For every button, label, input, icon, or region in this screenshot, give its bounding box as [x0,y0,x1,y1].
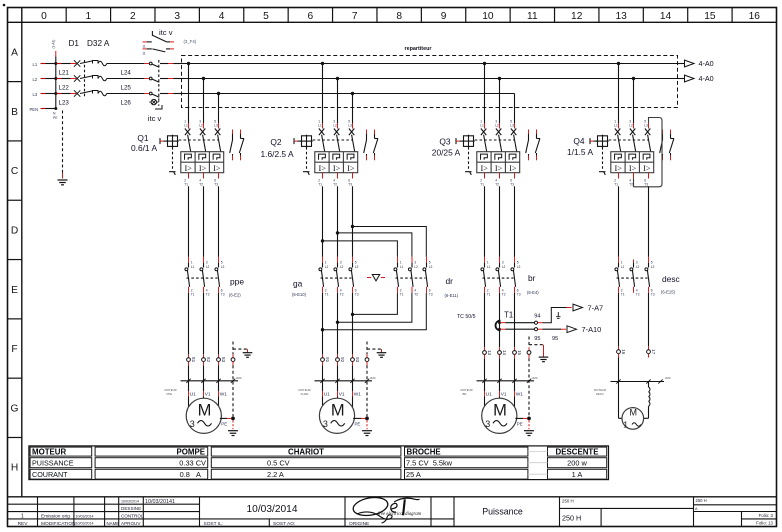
revision row REV / MODIFICATION [18,521,142,527]
row reference letters [8,48,22,474]
Q2 pole 3 lower pin [348,173,352,187]
svg-text:Folio: 13: Folio: 13 [756,521,773,526]
Q2 pole 1 contact [318,119,325,151]
svg-text:16: 16 [749,11,761,22]
svg-text:I>: I> [185,164,193,173]
svg-text:0.33 CV: 0.33 CV [179,459,206,468]
svg-text:T1: T1 [614,183,618,187]
wire contactor to terminal 15 [514,293,516,347]
contactor br label [527,273,539,295]
svg-text:T2: T2 [414,293,418,297]
svg-text:br: br [528,273,536,283]
terminal 81 [187,354,196,365]
svg-text:L1: L1 [184,124,188,128]
Q3 pole 2 contact [495,119,502,151]
Q4 pole 2 lower pin [629,173,633,187]
svg-text:L2: L2 [33,77,38,82]
contactor dr pole 2 [408,257,418,297]
svg-text:L1: L1 [480,124,484,128]
svg-text:MOTEUR: MOTEUR [32,447,66,456]
svg-text:PEN: PEN [30,107,39,112]
svg-text:L2: L2 [629,124,633,128]
wire starter to contactor x=322 [322,186,324,256]
svg-text:3: 3 [174,11,180,22]
svg-text:93: 93 [355,357,360,363]
svg-text:M: M [493,401,507,419]
svg-text:T1: T1 [184,183,188,187]
svg-text:T2: T2 [502,293,506,297]
motor protection breaker Q3 label [432,137,461,158]
wire contactor to terminal 14 [499,293,501,347]
wire desc left to terminal [618,293,620,347]
svg-text:free electrical diagram: free electrical diagram [378,512,422,517]
svg-text:C: C [11,166,18,177]
svg-text:81: 81 [191,357,196,363]
svg-text:TC 50/5: TC 50/5 [457,314,476,320]
contactor desc pole 2 [630,260,640,297]
svg-text:L3: L3 [429,265,433,269]
Q4 pole 2 contact [629,119,636,151]
svg-text:BR: BR [463,392,467,396]
svg-text:L2: L2 [502,265,506,269]
svg-text:2: 2 [184,178,186,182]
svg-text:5: 5 [355,261,357,265]
svg-text:I>: I> [213,164,221,173]
motor protection breaker Q4 label [567,136,593,157]
motor data table [29,446,609,480]
svg-text:(6-E4): (6-E4) [527,290,539,295]
svg-text:DESSINE: DESSINE [121,506,141,511]
svg-text:U1: U1 [324,391,330,397]
wire desc right to terminal [648,293,650,347]
svg-text:T2: T2 [206,293,210,297]
contactor desc linkage [617,277,648,279]
svg-text:T3: T3 [348,183,352,187]
svg-text:U1: U1 [190,391,196,397]
svg-text:H: H [11,463,18,474]
svg-text:T2: T2 [495,183,499,187]
svg-text:M: M [198,401,212,419]
motor protection breaker Q1 label [131,133,157,153]
contactor itc v coil/actuator [149,99,162,109]
svg-text:I>: I> [199,164,207,173]
svg-text:L3: L3 [221,265,225,269]
svg-text:itc v: itc v [159,28,173,37]
svg-text:I>: I> [495,164,503,173]
motor PE connection broche [515,417,534,436]
svg-text:1: 1 [86,11,92,22]
svg-text:PE: PE [355,421,361,426]
distribution block repartiteur [182,46,678,108]
svg-text:1: 1 [21,514,24,520]
Q1 pole 3 lower pin [214,173,218,187]
svg-text:17: 17 [651,349,656,355]
svg-text:6: 6 [644,178,646,182]
terminal 91 [321,354,330,365]
svg-text:L3: L3 [355,265,359,269]
wire starter to contactor x=484 [484,186,486,256]
PEN earth connection [53,111,68,185]
svg-text:L1: L1 [487,265,491,269]
wire strip to motor W1 [353,381,362,408]
wire jumper ga2 to dr2 (top) [336,231,412,257]
svg-text:(6-E11): (6-E11) [445,293,459,298]
svg-text:V1: V1 [205,391,211,397]
svg-text:5: 5 [348,119,350,123]
svg-text:3: 3 [636,261,638,265]
svg-text:T2: T2 [636,293,640,297]
T1 earth mark [556,312,560,319]
svg-text:T3: T3 [355,293,359,297]
Q2 thermal-magnetic block [315,152,358,173]
svg-text:11: 11 [527,11,538,22]
svg-text:I>: I> [333,164,341,173]
svg-text:4: 4 [219,11,225,22]
bus L2 [185,78,685,80]
svg-text:(3_F4): (3_F4) [184,39,197,44]
svg-text:1: 1 [623,420,628,430]
contactor itc v pole at y=78 [144,77,184,82]
table row PUISSANCE [32,459,588,468]
svg-text:10: 10 [482,11,494,22]
bus L3 [185,94,515,124]
svg-text:CHARIOT: CHARIOT [288,447,324,456]
svg-text:T2: T2 [333,183,337,187]
svg-text:NAME: NAME [107,521,120,526]
terminal 93 [351,354,360,365]
wire L1 entry [41,62,58,65]
title block 250 H right [695,498,707,511]
svg-text:1: 1 [325,261,327,265]
svg-text:L1: L1 [400,265,404,269]
Q2 pole 2 lower pin [333,173,337,187]
svg-text:5: 5 [429,261,431,265]
Q1 operating handle [160,135,179,148]
svg-text:5: 5 [651,261,653,265]
svg-text:3: 3 [340,261,342,265]
terminal 15 [513,347,522,358]
svg-text:L2: L2 [414,265,418,269]
Q1 auxiliary contact NO [230,130,233,161]
svg-text:250 H: 250 H [562,513,581,522]
svg-text:5: 5 [221,261,223,265]
svg-text:V1: V1 [339,391,345,397]
breaker D1 mechanical linkage [84,60,86,97]
svg-text:COURANT: COURANT [32,470,68,479]
svg-text:8: 8 [396,11,402,22]
svg-text:(6-E15): (6-E15) [661,290,676,295]
wire tap to Q2 from bus [351,92,354,123]
svg-text:95: 95 [552,336,558,342]
contactor desc label [661,274,680,295]
revision row CONTROL [21,514,144,520]
wire starter to contactor x=648 [648,186,650,256]
svg-text:10/03/2014: 10/03/2014 [247,504,298,515]
svg-text:M: M [331,401,345,419]
svg-text:Puissance: Puissance [482,507,523,517]
motor PE connection chariot [353,417,372,436]
Q2 operating handle [294,135,313,148]
svg-text:Q1: Q1 [137,133,149,143]
contactor ppe pole 3 [215,257,225,297]
svg-text:T1: T1 [325,293,329,297]
folio arrow 4-A0 (L1) [678,59,714,68]
svg-text:REV: REV [18,521,29,527]
table row MOTEUR [32,447,598,456]
svg-text:F: F [11,344,17,355]
contactor ppe pole 1 [185,257,195,297]
svg-text:L21: L21 [59,70,70,77]
motor M 3~ chariot [319,398,354,433]
Q3 pole 2 lower pin [495,173,499,187]
wire jumper dr2 to ga2 (bottom) [336,293,412,324]
svg-text:L1: L1 [33,62,38,67]
svg-text:200 w: 200 w [567,459,587,468]
svg-text:250 H: 250 H [562,499,574,504]
contactor br pole 1 [481,257,491,297]
wire starter to contactor x=514 [514,186,516,256]
wire jumper ga1 to dr1 (top) [321,239,398,257]
svg-text:3: 3 [190,419,195,429]
aux contact pin numbers [142,45,146,56]
motor PE connection pompe [220,417,238,436]
svg-text:2M9: 2M9 [532,376,538,380]
Q3 thermal-magnetic block [477,152,520,173]
svg-text:6: 6 [510,178,512,182]
svg-text:15: 15 [517,350,522,356]
wire starter to contactor x=188 [188,186,190,256]
svg-text:6: 6 [348,178,350,182]
wire terminal to strip x=514 [514,358,516,381]
svg-text:2: 2 [325,288,327,292]
svg-text:L24: L24 [121,70,132,77]
svg-text:25 A: 25 A [406,470,421,479]
terminal strip pompe [165,376,242,396]
wire starter to contactor x=218 [218,186,220,256]
svg-text:4: 4 [502,288,504,292]
svg-text:14: 14 [660,11,672,22]
contactor itc v pole at y=63 [144,62,184,67]
svg-text:T3: T3 [644,183,648,187]
terminal 83 [217,354,226,365]
svg-text:0.5 CV: 0.5 CV [267,459,290,468]
aux contact itc v NC (top) [143,31,174,42]
svg-text:PE: PE [221,421,227,426]
svg-text:MODIFICATION: MODIFICATION [41,521,76,527]
Q3 auxiliary contact NC [535,130,540,161]
svg-text:6: 6 [221,288,223,292]
svg-text:4: 4 [199,178,201,182]
svg-text:I>: I> [347,164,355,173]
svg-text:4-A0: 4-A0 [699,74,714,83]
Q1 pole 1 lower pin [184,173,188,187]
svg-text:L3: L3 [348,124,352,128]
terminal strip broche [461,376,538,396]
wire tap to Q1 from bus [187,62,190,123]
svg-text:itc v: itc v [148,114,162,123]
svg-text:desc: desc [662,274,680,284]
svg-text:L1: L1 [614,124,618,128]
svg-text:T1: T1 [480,183,484,187]
wire starter to contactor x=618 [618,186,620,256]
svg-text:(6-E2): (6-E2) [229,293,241,298]
bus L1 [185,63,685,65]
breaker D1 pole at y=93 [56,90,145,96]
aux contact itc v NO (top) [143,49,174,52]
terminal 82 [202,354,211,365]
svg-text:L2: L2 [340,265,344,269]
motor M 1~ descente [622,408,644,430]
svg-text:PUISSANCE: PUISSANCE [32,459,74,468]
svg-text:T3: T3 [517,293,521,297]
contactor dr pole 1 [394,257,404,297]
svg-text:10/03/2014: 10/03/2014 [121,500,139,504]
Q3 operating handle [456,135,475,148]
svg-text:L3: L3 [517,265,521,269]
svg-text:1: 1 [480,119,482,123]
contactor ppe linkage [187,277,218,279]
svg-text:L2: L2 [206,265,210,269]
svg-text:12: 12 [571,11,583,22]
mechanical interlock ga/dr [367,275,385,281]
PE conductor chariot [365,342,386,417]
Q1 mechanical linkage [169,140,219,175]
Q1 auxiliary contact NC [239,130,244,161]
svg-text:7: 7 [352,11,358,22]
wire contactor to terminal 91 [322,293,324,355]
wire starter to contactor x=203 [203,186,205,256]
svg-text:1: 1 [614,119,616,123]
svg-text:6: 6 [355,288,357,292]
svg-text:L2: L2 [495,124,499,128]
svg-text:(6-E10): (6-E10) [292,292,307,297]
svg-text:L25: L25 [121,85,132,92]
svg-text:20/25 A: 20/25 A [432,147,461,157]
svg-text:SOST AO:: SOST AO: [273,521,295,527]
svg-text:5: 5 [517,261,519,265]
contactor ga pole 2 [334,257,344,297]
wire terminal to strip x=322 [322,365,324,380]
wire contactor to terminal 83 [218,293,220,355]
wire tap to Q3 from bus [483,62,486,123]
svg-text:94: 94 [534,313,540,319]
Q1 pole 3 contact [214,119,221,151]
svg-text:2: 2 [621,288,623,292]
svg-text:L2: L2 [333,124,337,128]
svg-text:T1: T1 [487,293,491,297]
svg-text:W1: W1 [516,391,524,397]
wire contactor to terminal 13 [484,293,486,347]
svg-text:D: D [11,225,18,236]
svg-text:1: 1 [184,119,186,123]
svg-text:0.8 A: 0.8 A [180,470,201,479]
wire PEN entry [41,107,58,110]
svg-text:CHAR: CHAR [301,392,309,396]
svg-text:L3: L3 [651,265,655,269]
wire strip to motor V1 [500,381,507,398]
breaker D1 pole at y=63 [56,60,145,66]
svg-text:Q2: Q2 [270,137,282,147]
wire Q4 pole2 lower to jumper [633,179,635,187]
svg-text:D1: D1 [69,39,80,48]
svg-text:ORIGINE: ORIGINE [349,521,369,527]
svg-text:10/03/2014: 10/03/2014 [76,514,94,518]
svg-text:92: 92 [340,357,345,363]
wire contactor to terminal 93 [352,293,354,355]
wire jumper dr1 to ga3 (bottom) [351,293,398,316]
Q1 pole 2 lower pin [199,173,203,187]
svg-text:T2: T2 [199,183,203,187]
motor protection breaker Q2 label [260,137,293,159]
contactor br linkage [483,277,514,279]
svg-text:2M9: 2M9 [236,376,242,380]
Q2 auxiliary contact NO [364,130,367,161]
svg-text:7-A7: 7-A7 [588,304,604,313]
wire contactor to terminal 82 [203,293,205,355]
Q3 pole 1 lower pin [480,173,484,187]
wire tap to Q4 from bus [617,62,620,123]
corner registration dot [3,4,6,7]
svg-text:83: 83 [221,357,226,363]
svg-text:T2: T2 [340,293,344,297]
svg-text:B: B [11,107,18,118]
wire tap to Q2 from bus [336,77,339,123]
wire strip to motor W1 [515,381,524,407]
svg-text:11: 11 [142,51,146,55]
svg-text:3: 3 [333,119,335,123]
Q4 mechanical linkage [599,140,649,175]
svg-text:I>: I> [509,164,517,173]
Q1 pole 1 contact [184,119,191,151]
svg-text:CONTROL: CONTROL [121,514,144,519]
svg-text:0.6/1 A: 0.6/1 A [131,143,157,153]
svg-text:4: 4 [495,178,497,182]
svg-text:I>: I> [643,164,651,173]
svg-text:PE: PE [53,116,58,120]
svg-text:L2: L2 [636,265,640,269]
wire terminal to strip x=484 [484,358,486,381]
terminal 14 [498,347,507,358]
wire strip to motor V1 [204,381,211,398]
svg-text:1/1.5 A: 1/1.5 A [567,147,593,157]
wire tap to Q1 from bus [202,77,205,123]
Q4 auxiliary contact NO [660,130,663,161]
svg-text:T3: T3 [510,183,514,187]
svg-text:SOST IL:: SOST IL: [204,521,224,527]
svg-text:3: 3 [485,419,490,429]
contactor desc pole 1 [615,257,625,297]
svg-text:G: G [11,403,19,414]
Q4 pole 1 contact [614,119,621,151]
Q2 auxiliary contact NC [373,130,378,161]
svg-text:Q3: Q3 [439,137,451,147]
current transformer T1 [457,311,513,331]
svg-text:L1: L1 [325,265,329,269]
svg-text:16: 16 [621,349,626,355]
svg-text:3: 3 [502,261,504,265]
svg-text:0: 0 [41,11,47,22]
svg-text:15: 15 [704,11,716,22]
svg-text:3: 3 [495,119,497,123]
svg-text:L3: L3 [33,92,38,97]
svg-text:M: M [630,408,638,418]
svg-text:4: 4 [414,288,416,292]
svg-text:3: 3 [206,261,208,265]
svg-text:3: 3 [414,261,416,265]
wire strip to motor U1 [323,381,331,406]
Q4 pole 1 lower pin [614,173,618,187]
svg-text:L3: L3 [510,124,514,128]
